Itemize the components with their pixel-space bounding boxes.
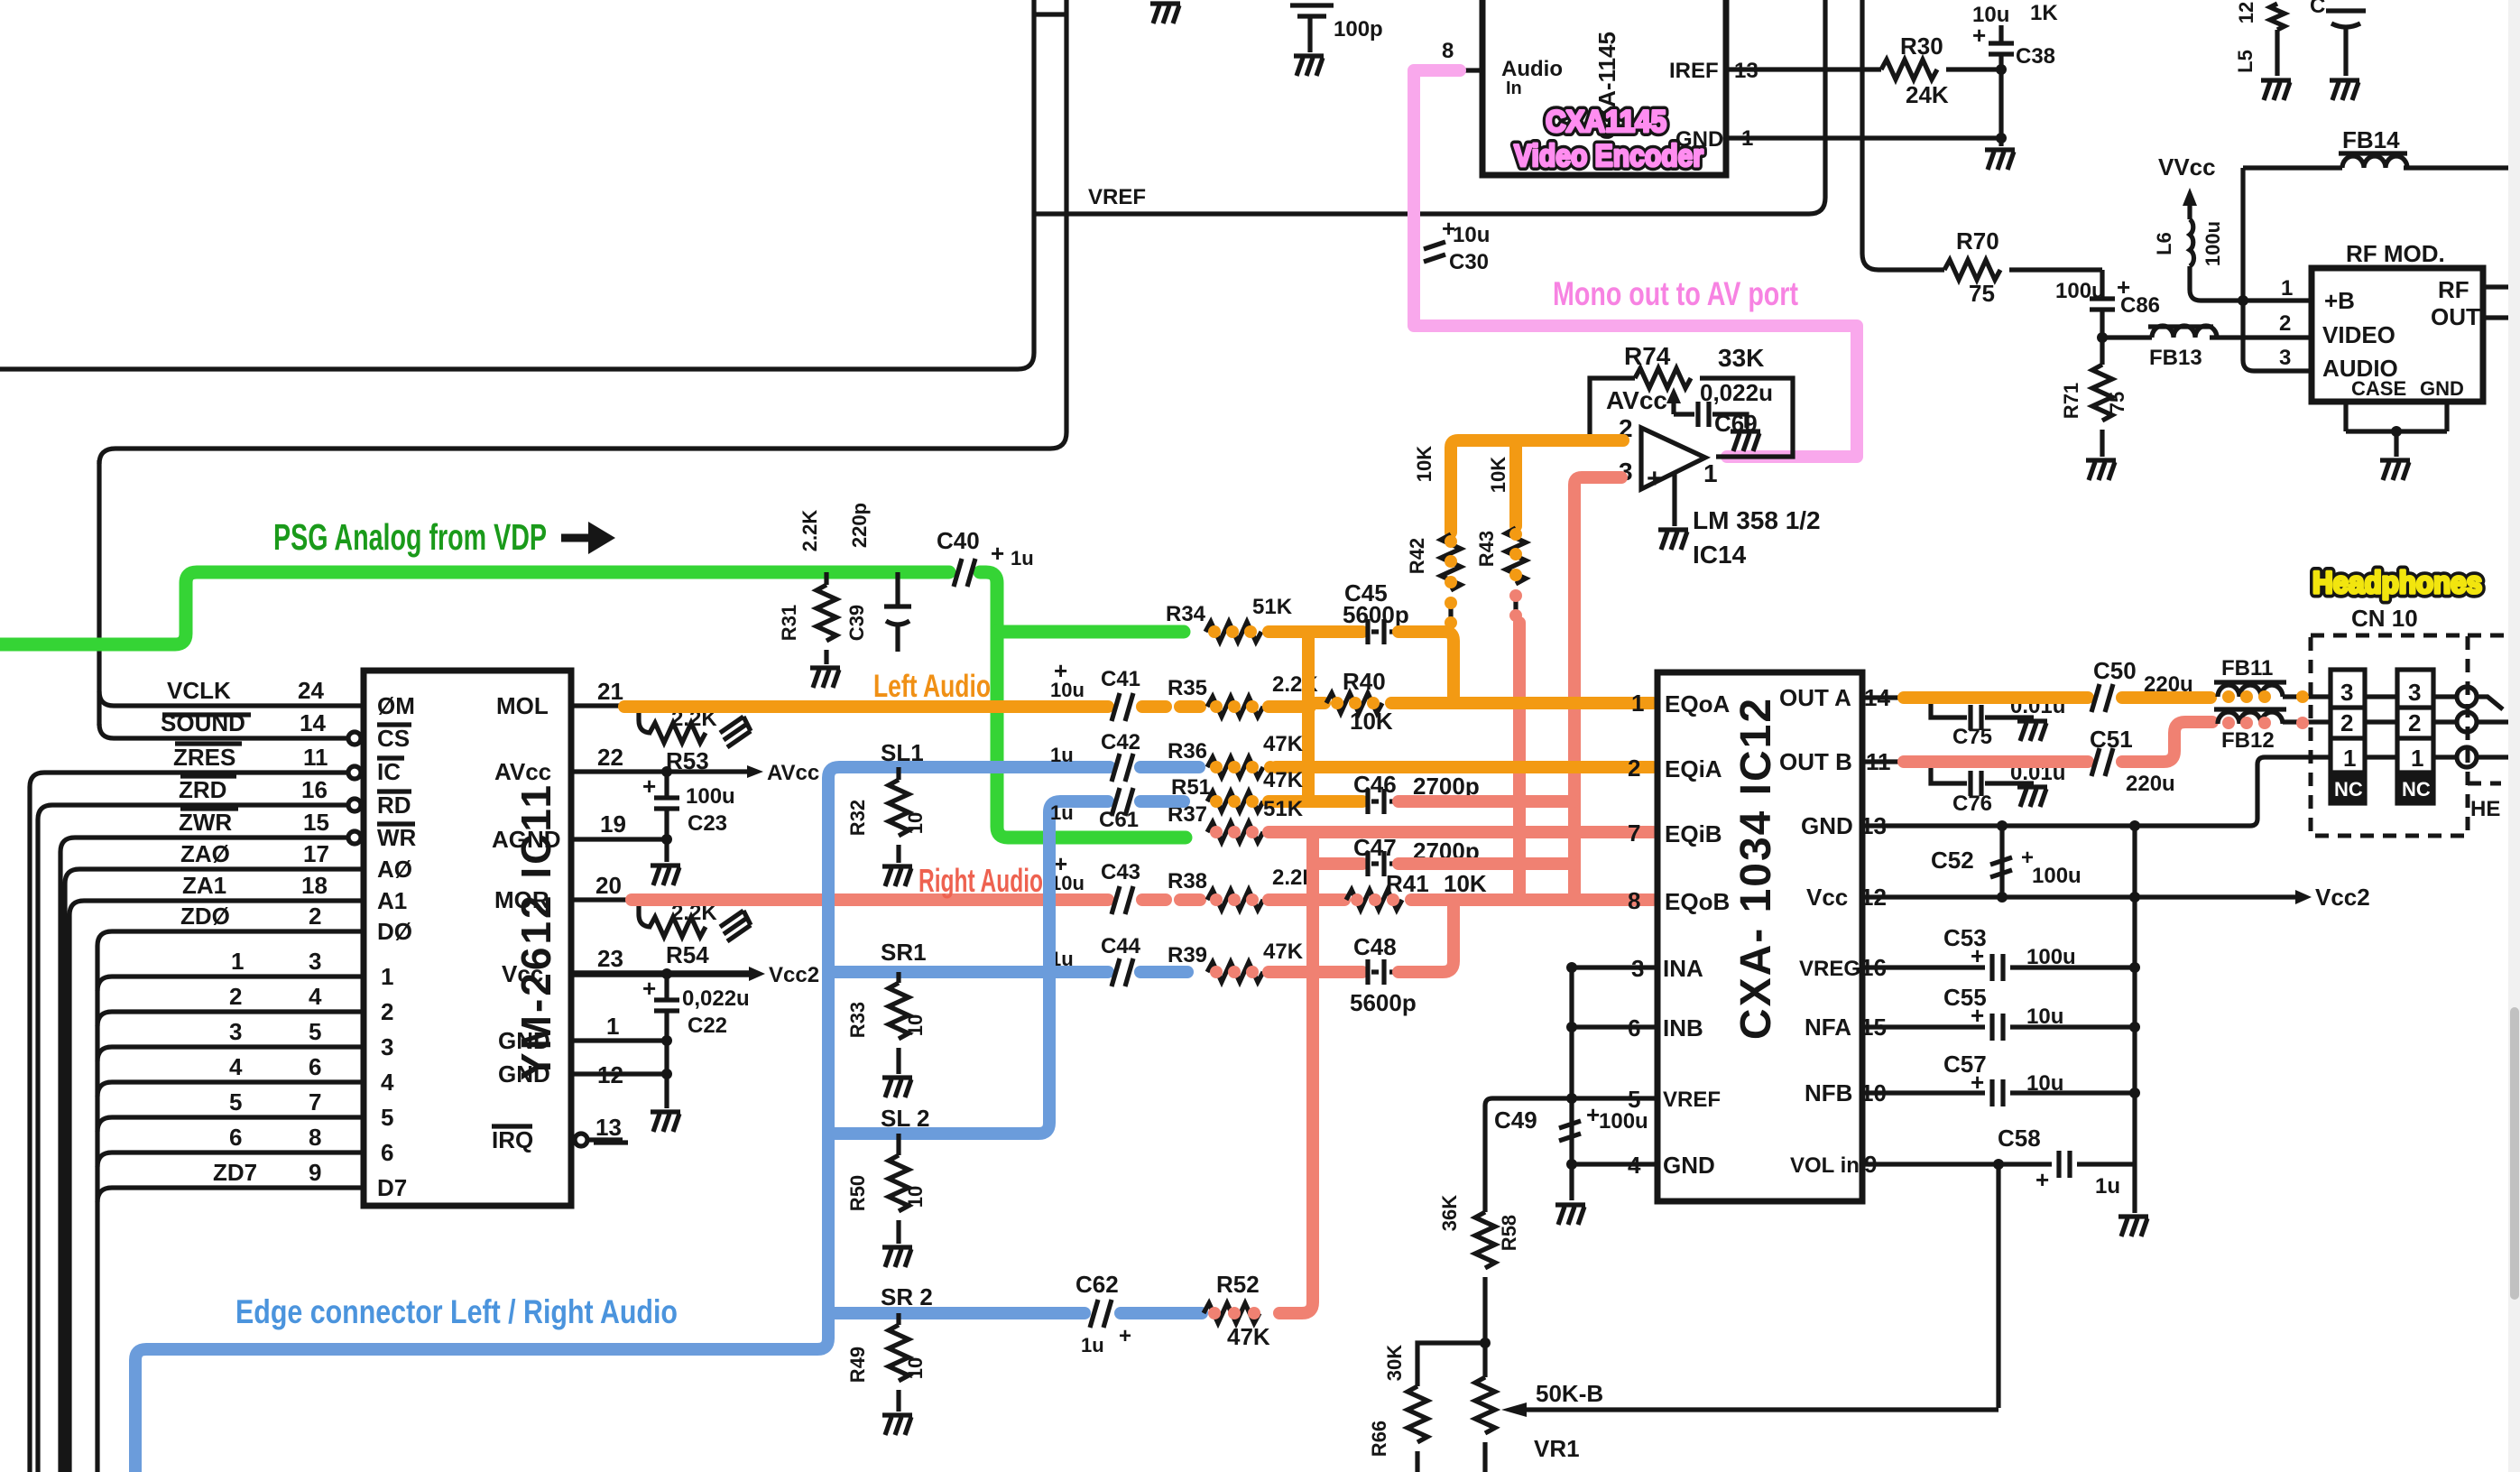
- svg-text:+: +: [991, 540, 1004, 567]
- svg-text:R38: R38: [1168, 869, 1207, 893]
- svg-text:CXA1145: CXA1145: [1546, 105, 1666, 139]
- svg-text:8: 8: [1442, 39, 1454, 63]
- svg-text:Mono out to AV port: Mono out to AV port: [1553, 275, 1798, 312]
- pin Vcc 23 bold: [502, 945, 749, 987]
- svg-text:C44: C44: [1101, 934, 1141, 958]
- resistor R40 10K: [1326, 668, 1393, 735]
- svg-text:OUT B: OUT B: [1779, 748, 1852, 775]
- ground under cap: [2330, 80, 2359, 100]
- potentiometer VR1 50K-B: [1475, 1343, 1603, 1472]
- svg-text:4: 4: [1628, 1152, 1641, 1179]
- wire orange R40 to pin1 EQoA: [1391, 697, 1653, 709]
- labels inside left column IC11: [377, 692, 417, 1201]
- svg-text:C38: C38: [2016, 44, 2055, 69]
- ferrite bead FB14: [2243, 126, 2508, 168]
- pin 1 GND: [1675, 126, 2001, 152]
- pin AGND 19: [492, 810, 667, 853]
- svg-text:NFA: NFA: [1805, 1014, 1851, 1041]
- svg-text:INB: INB: [1663, 1014, 1703, 1042]
- svg-text:10: 10: [904, 1186, 927, 1208]
- svg-text:RD: RD: [377, 792, 411, 819]
- svg-text:2: 2: [2279, 311, 2291, 336]
- svg-text:FB12: FB12: [2221, 728, 2275, 753]
- svg-text:5: 5: [229, 1088, 242, 1116]
- svg-text:EQoA: EQoA: [1665, 690, 1730, 717]
- jack contact row 2: [2433, 712, 2508, 732]
- resistor R53 2.2K: [639, 706, 751, 774]
- svg-text:OUT A: OUT A: [1779, 684, 1851, 711]
- wire to R66: [1417, 1343, 1485, 1386]
- svg-text:3: 3: [381, 1033, 393, 1060]
- ground under R33: [882, 1078, 912, 1097]
- svg-text:ZRD: ZRD: [179, 776, 226, 803]
- wire stub joining verticals at top: [1034, 12, 1066, 16]
- capacitor C62 1u: [1075, 1271, 1131, 1356]
- arrow after PSG label: [561, 522, 615, 554]
- svg-text:+: +: [1971, 942, 1984, 969]
- wire salmon to op-amp pin 3: [1574, 477, 1621, 900]
- svg-text:1: 1: [606, 1013, 619, 1040]
- svg-text:Headphones: Headphones: [2312, 566, 2482, 600]
- resistor R37 51K: [1168, 797, 1304, 842]
- svg-text:21: 21: [597, 678, 623, 705]
- resistor R51 47K: [1171, 768, 1304, 811]
- svg-text:C49: C49: [1494, 1106, 1537, 1134]
- pin 13 GND: [1801, 757, 2331, 839]
- svg-text:INA: INA: [1663, 955, 1703, 982]
- svg-text:11: 11: [1866, 748, 1891, 775]
- svg-text:24: 24: [298, 677, 324, 704]
- svg-text:NFB: NFB: [1805, 1079, 1852, 1106]
- svg-text:SL 2: SL 2: [881, 1105, 929, 1132]
- svg-text:A1: A1: [377, 887, 407, 914]
- wire ZD0 pin 2: [97, 903, 364, 946]
- orange dots R42: [1445, 535, 1457, 629]
- svg-text:AØ: AØ: [377, 856, 412, 883]
- ground under C23: [651, 866, 680, 885]
- svg-text:1K: 1K: [2030, 1, 2058, 25]
- capacitor C52 100u: [1931, 826, 2082, 897]
- svg-text:C40: C40: [937, 527, 980, 554]
- svg-text:6: 6: [229, 1124, 242, 1151]
- ferrite bead FB13: [2102, 326, 2309, 370]
- wire salmon EQiB row to pin 7: [1269, 826, 1653, 838]
- svg-text:100u: 100u: [2032, 864, 2082, 888]
- svg-text:FB13: FB13: [2149, 346, 2202, 370]
- svg-text:2.2K: 2.2K: [798, 510, 821, 552]
- wire orange branch R43 top: [1509, 440, 1522, 526]
- svg-text:VREF: VREF: [1088, 185, 1146, 209]
- svg-text:C22: C22: [688, 1014, 727, 1038]
- resistor R70 75: [1944, 227, 2102, 307]
- orange dots R34: [1208, 625, 1257, 638]
- svg-text:10: 10: [904, 1014, 927, 1036]
- svg-text:D7: D7: [377, 1174, 407, 1201]
- resistor R50: [846, 1134, 927, 1244]
- svg-text:VREG: VREG: [1799, 957, 1860, 981]
- svg-text:GND: GND: [498, 1060, 550, 1088]
- svg-text:EQiB: EQiB: [1665, 820, 1722, 847]
- svg-text:Vcc2: Vcc2: [2315, 884, 2370, 911]
- svg-text:1: 1: [1631, 690, 1644, 717]
- svg-text:+B: +B: [2324, 287, 2355, 314]
- svg-text:1: 1: [2281, 276, 2293, 301]
- svg-text:Vcc: Vcc: [502, 960, 543, 987]
- svg-text:13: 13: [1860, 812, 1887, 839]
- svg-text:5600p: 5600p: [1350, 989, 1417, 1016]
- orange dots R51: [1210, 795, 1259, 808]
- svg-text:R54: R54: [666, 941, 709, 968]
- wire salmon OUT B to C51: [1904, 755, 2088, 768]
- svg-text:ZA1: ZA1: [182, 872, 226, 899]
- svg-text:SR 2: SR 2: [881, 1283, 933, 1310]
- svg-text:Vcc2: Vcc2: [769, 963, 819, 987]
- svg-text:100u: 100u: [1599, 1109, 1648, 1134]
- svg-text:R43: R43: [1475, 531, 1498, 567]
- wire orange Left Audio from MOL: [624, 700, 1108, 713]
- svg-text:1: 1: [2411, 745, 2423, 772]
- wiper arrow VR1: [1501, 1403, 1998, 1417]
- svg-text:IC14: IC14: [1693, 541, 1747, 569]
- wire salmon C48 up to EQoB: [1398, 900, 1454, 972]
- capacitor C29: [1290, 5, 1383, 52]
- svg-text:Edge connector Left / Right Au: Edge connector Left / Right Audio: [235, 1293, 678, 1330]
- wire wiper up to VOL in: [1996, 1164, 2000, 1408]
- svg-text:R32: R32: [846, 800, 869, 836]
- capacitor C51 220u: [2090, 726, 2175, 796]
- capacitor C47 2700p: [1353, 834, 1480, 876]
- svg-text:C76: C76: [1952, 792, 1992, 816]
- svg-text:VCLK: VCLK: [167, 677, 231, 704]
- svg-text:16: 16: [1860, 954, 1887, 981]
- svg-text:Right Audio: Right Audio: [918, 862, 1043, 899]
- inductor L6: [2153, 219, 2312, 301]
- pin 6 INB: [1572, 1014, 1703, 1042]
- svg-text:1: 1: [1741, 126, 1753, 151]
- resistor R71: [2060, 338, 2128, 457]
- svg-text:C52: C52: [1931, 847, 1974, 874]
- svg-text:7: 7: [1628, 819, 1640, 847]
- wire ZA0 pin 17: [65, 840, 364, 1472]
- pin 3 INA: [1572, 955, 1703, 982]
- svg-text:RF: RF: [2438, 276, 2469, 303]
- capacitor C86 100u: [2055, 270, 2160, 338]
- svg-text:AVcc: AVcc: [1606, 386, 1667, 414]
- svg-text:C48: C48: [1353, 933, 1397, 960]
- pin 7 EQiB: [1628, 819, 1722, 847]
- capacitor C44 1u: [1050, 934, 1141, 986]
- svg-text:51K: 51K: [1263, 797, 1304, 821]
- svg-text:4: 4: [309, 983, 322, 1010]
- pin 2 VIDEO: [2279, 311, 2395, 348]
- svg-text:R49: R49: [846, 1347, 869, 1383]
- capacitor C55 10u labels: [1943, 984, 2063, 1029]
- svg-text:DØ: DØ: [377, 918, 412, 945]
- capacitor C40 1u: [937, 527, 1034, 587]
- svg-text:22: 22: [597, 744, 623, 771]
- svg-text:12: 12: [597, 1061, 623, 1088]
- svg-text:C46: C46: [1353, 771, 1397, 798]
- wires between strips: [2365, 697, 2397, 757]
- svg-text:5: 5: [381, 1104, 393, 1131]
- capacitor C42 1u: [1050, 730, 1140, 782]
- svg-text:12: 12: [2235, 2, 2257, 23]
- svg-text:AVcc: AVcc: [494, 758, 551, 785]
- svg-text:+: +: [642, 975, 656, 1002]
- svg-text:6: 6: [309, 1053, 321, 1080]
- wire data bus vertical: [95, 946, 99, 1472]
- ground under C49/GND4: [1555, 1164, 1585, 1225]
- svg-text:30K: 30K: [1383, 1345, 1406, 1381]
- svg-text:GND: GND: [498, 1027, 550, 1054]
- label AVcc + arrow: [1606, 386, 1681, 414]
- ground under RF MOD: [2380, 460, 2410, 480]
- svg-text:C61: C61: [1099, 808, 1139, 832]
- resistor R32: [846, 767, 927, 863]
- svg-text:Vcc: Vcc: [1806, 884, 1848, 911]
- svg-text:2: 2: [381, 998, 393, 1025]
- ground under R50: [882, 1247, 912, 1267]
- wire salmon R39 to C48: [1269, 966, 1362, 978]
- wire ZWR pin 15: [60, 809, 361, 1472]
- capacitor C39 220p: [845, 503, 911, 652]
- svg-text:RF MOD.: RF MOD.: [2346, 240, 2445, 267]
- svg-text:R40: R40: [1343, 668, 1386, 695]
- resistor R31 2.2K: [778, 510, 836, 664]
- arrow Vcc2: [749, 963, 819, 987]
- capacitor top right: [2310, 0, 2366, 76]
- svg-text:VREF: VREF: [1663, 1088, 1721, 1112]
- capacitor C45 5600p: [1343, 579, 1409, 644]
- svg-text:LM 358 1/2: LM 358 1/2: [1693, 506, 1821, 534]
- svg-text:GND: GND: [1801, 812, 1853, 839]
- resistor R58 36K: [1438, 1195, 1520, 1343]
- svg-text:HE: HE: [2470, 797, 2500, 821]
- svg-text:EQiA: EQiA: [1665, 755, 1722, 782]
- resistor R41 10K: [1346, 870, 1487, 910]
- wire green after C40 down to R37: [980, 572, 1186, 838]
- svg-text:VVcc: VVcc: [2158, 153, 2216, 181]
- pin 5 VREF: [1485, 1086, 1721, 1212]
- junction C86/FB13 node: [2097, 332, 2108, 343]
- wire orange EQiA row: [1276, 761, 1653, 773]
- svg-text:47K: 47K: [1227, 1323, 1270, 1350]
- svg-text:7: 7: [309, 1088, 321, 1116]
- svg-text:10: 10: [1860, 1079, 1887, 1106]
- resistor R36 47K: [1168, 732, 1304, 777]
- wire orange to op-amp pin 2: [1451, 440, 1623, 532]
- svg-text:Video Encoder: Video Encoder: [1514, 139, 1703, 173]
- RF MOD box: [2312, 268, 2483, 402]
- svg-text:10: 10: [904, 1357, 927, 1379]
- wire orange R34 row to C45: [1269, 625, 1362, 638]
- svg-text:15: 15: [1860, 1014, 1887, 1041]
- ferrite bead FB11: [2214, 656, 2331, 697]
- wire green PSG from left: [0, 572, 949, 644]
- svg-text:33K: 33K: [1718, 344, 1764, 372]
- orange dots R40: [1331, 697, 1380, 709]
- svg-text:CN 10: CN 10: [2351, 605, 2418, 632]
- label CASE GND: [2351, 377, 2464, 400]
- svg-text:4: 4: [229, 1053, 243, 1080]
- svg-text:R33: R33: [846, 1002, 869, 1038]
- wire VCLK pin 24: [99, 677, 364, 706]
- wire FB14 down to RF pins: [2243, 168, 2312, 371]
- resistor R42 10K: [1406, 446, 1461, 632]
- svg-text:0,022u: 0,022u: [1700, 379, 1773, 406]
- svg-text:1u: 1u: [1050, 744, 1074, 766]
- svg-text:PSG Analog from VDP: PSG Analog from VDP: [273, 516, 547, 558]
- svg-text:2: 2: [309, 903, 321, 930]
- resistor R35 2.2K: [1168, 672, 1318, 717]
- svg-text:GND: GND: [1663, 1152, 1715, 1179]
- svg-text:100u: 100u: [2202, 221, 2224, 266]
- dashed extension right: [2468, 635, 2508, 783]
- wire INA/INB vertical to VREF: [1569, 967, 1574, 1164]
- svg-text:220p: 220p: [848, 503, 871, 548]
- svg-text:10u: 10u: [1050, 679, 1085, 701]
- svg-text:ZAØ: ZAØ: [180, 840, 230, 867]
- pin 11 OUT B: [1779, 748, 1904, 775]
- pin 1 +B: [2281, 276, 2355, 314]
- svg-text:R34: R34: [1166, 602, 1206, 626]
- pin 8 Audio In: [1442, 39, 1563, 98]
- wire ZRD pin 16: [38, 776, 361, 1472]
- svg-text:16: 16: [301, 776, 328, 803]
- pin 8 EQoB: [1628, 887, 1730, 915]
- capacitor C23 100u: [642, 772, 735, 862]
- svg-text:3: 3: [2408, 679, 2421, 706]
- ground top middle floating: [1150, 4, 1180, 23]
- ground under R71: [2086, 460, 2116, 480]
- svg-text:10u: 10u: [2026, 1071, 2063, 1096]
- salmon dots FB12: [2222, 717, 2309, 729]
- svg-text:Left Audio: Left Audio: [873, 669, 991, 704]
- svg-text:9: 9: [309, 1159, 321, 1186]
- wire orange R35 out to bus: [1269, 700, 1310, 713]
- ground under R31: [810, 668, 840, 688]
- pin 14 OUT A: [1779, 684, 1904, 711]
- resistor R30 24K: [1881, 32, 2001, 108]
- svg-text:C30: C30: [1449, 250, 1489, 274]
- wire row2 pin 4: [97, 983, 364, 1026]
- orange dots R36: [1210, 761, 1277, 773]
- svg-text:ZWR: ZWR: [179, 809, 232, 836]
- capacitor C76 0.01u: [1931, 761, 2065, 816]
- capacitor C49 100u: [1494, 1101, 1648, 1141]
- ground under R32: [882, 866, 912, 886]
- svg-text:+: +: [1971, 1069, 1984, 1096]
- wire orange EQoA row: [1308, 697, 1325, 709]
- salmon dots R52: [1208, 1307, 1260, 1319]
- svg-text:1: 1: [2343, 745, 2356, 772]
- svg-text:1u: 1u: [1011, 547, 1034, 569]
- wire salmon dashes after C43: [1142, 893, 1200, 906]
- resistor R74 33K feedback: [1590, 342, 1793, 457]
- svg-text:CASE: CASE: [2351, 377, 2406, 400]
- wire big top-left path A: [0, 0, 1034, 369]
- svg-text:100u: 100u: [2055, 279, 2105, 303]
- pin MOR 20: [494, 872, 637, 913]
- svg-text:2: 2: [1628, 755, 1640, 782]
- svg-text:C42: C42: [1101, 730, 1140, 755]
- wire blue SR2 after C62: [1121, 1307, 1202, 1319]
- wire salmon EQoB row to pin 8: [1411, 893, 1653, 906]
- svg-text:R52: R52: [1216, 1271, 1260, 1298]
- capacitor C46 2700p: [1353, 771, 1480, 814]
- svg-text:R58: R58: [1498, 1215, 1520, 1251]
- resistor R54 2.2K: [639, 900, 751, 968]
- wire blue after C61: [1140, 795, 1184, 808]
- ground op-amp: [1658, 474, 1688, 550]
- wire salmon R38 to R41: [1269, 893, 1344, 906]
- pin GND 12: [498, 1060, 667, 1088]
- resistor R34 51K: [1166, 595, 1293, 642]
- svg-text:3: 3: [309, 948, 321, 975]
- pin 1 EQoA: [1631, 690, 1730, 717]
- svg-text:14: 14: [300, 709, 326, 736]
- svg-text:Audio: Audio: [1501, 57, 1563, 81]
- arrow Vcc2 right: [2295, 884, 2370, 911]
- pin GND 1: [498, 1013, 667, 1054]
- junction at +B: [2238, 295, 2248, 306]
- svg-text:47K: 47K: [1263, 732, 1304, 756]
- svg-text:R53: R53: [666, 747, 709, 774]
- wire row3 pin 5: [97, 1018, 364, 1061]
- connector strip 1: [2331, 670, 2365, 803]
- wire orange C45 out corner down to EQoA: [1398, 632, 1454, 703]
- wire pink mono out highlight: [1414, 70, 1857, 457]
- label RF OUT: [2431, 276, 2480, 330]
- svg-text:R70: R70: [1956, 227, 1999, 255]
- svg-text:VR1: VR1: [1534, 1435, 1580, 1462]
- svg-text:NC: NC: [2402, 778, 2431, 801]
- resistor R43 10K: [1475, 457, 1526, 623]
- wire orange OUT A to C50: [1904, 691, 2088, 704]
- op-amp CXA1145 box U?: [1482, 0, 1726, 175]
- junction dots C38 node: [1996, 64, 2007, 75]
- svg-text:FB14: FB14: [2342, 126, 2400, 153]
- svg-text:AVcc: AVcc: [767, 761, 819, 785]
- svg-text:WR: WR: [377, 824, 417, 851]
- wire big top-left path B: [99, 0, 1066, 464]
- svg-text:ZDØ: ZDØ: [180, 903, 230, 930]
- wire green branch to R34: [997, 625, 1184, 639]
- svg-text:10u: 10u: [2026, 1004, 2063, 1029]
- ground under C22: [651, 1112, 680, 1132]
- svg-text:R74: R74: [1624, 342, 1671, 370]
- svg-text:36K: 36K: [1438, 1195, 1461, 1231]
- svg-text:3: 3: [229, 1018, 242, 1045]
- ground right bus: [2118, 1217, 2148, 1236]
- svg-text:24K: 24K: [1906, 81, 1949, 108]
- IC CXA-1034 IC12 box: [1657, 672, 1862, 1201]
- svg-text:C43: C43: [1101, 860, 1140, 884]
- orange dots R35: [1210, 700, 1259, 713]
- svg-text:10K: 10K: [1413, 446, 1435, 482]
- wire orange C50 to FB11: [2122, 691, 2211, 704]
- ground under C38: [1985, 150, 2015, 170]
- svg-text:2: 2: [229, 983, 242, 1010]
- junction R58 bottom: [1480, 1338, 1491, 1348]
- svg-text:18: 18: [301, 872, 328, 899]
- svg-text:50K-B: 50K-B: [1536, 1380, 1603, 1407]
- wire row5 pin 7: [97, 1088, 364, 1132]
- wire row1 pin 3: [97, 948, 364, 991]
- svg-text:C47: C47: [1353, 834, 1397, 861]
- capacitor C30 10u: [1424, 215, 1490, 274]
- svg-text:R30: R30: [1900, 32, 1943, 60]
